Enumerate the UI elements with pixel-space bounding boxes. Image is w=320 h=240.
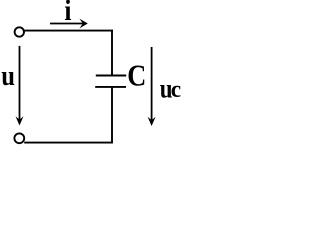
label uc <box>160 75 181 104</box>
svg-text:c: c <box>171 77 181 103</box>
voltage arrow u <box>16 46 24 126</box>
capacitor C1 top plate <box>96 75 126 77</box>
current arrow i <box>50 19 88 29</box>
voltage arrow uc <box>148 47 156 126</box>
terminal (bottom-left) <box>14 133 24 143</box>
wire right vertical lower <box>111 87 113 143</box>
svg-text:u: u <box>1 59 15 91</box>
wire top horizontal <box>24 30 113 32</box>
terminal (top-left) <box>15 27 24 36</box>
wire bottom horizontal <box>24 142 113 144</box>
wire right vertical upper <box>111 30 113 76</box>
capacitor C1 bottom plate <box>95 86 126 88</box>
svg-text:C: C <box>127 59 146 93</box>
